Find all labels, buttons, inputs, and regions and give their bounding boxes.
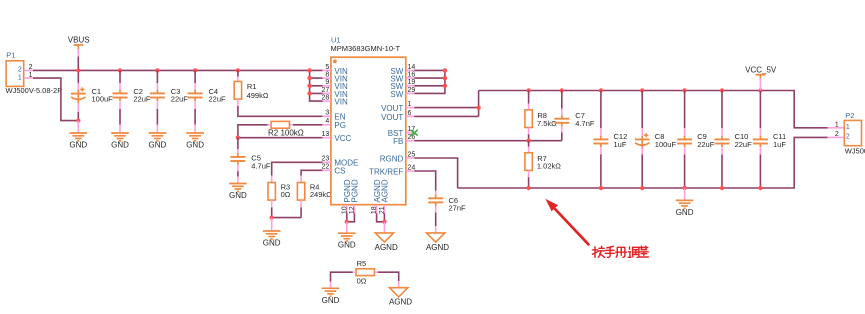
svg-text:22uF: 22uF [697, 140, 715, 149]
junction node ground rail at C9 [682, 186, 686, 190]
svg-text:FB: FB [393, 137, 403, 146]
pin R7 bottom [528, 170, 530, 177]
wire R7 bottom to ground rail [528, 177, 530, 188]
junction node SW bus [443, 76, 447, 80]
resistor R5 [356, 269, 374, 276]
wire R5 right to AGND [378, 272, 399, 281]
svg-text:VCC: VCC [334, 134, 351, 143]
svg-text:1uF: 1uF [773, 140, 786, 149]
pin C6 bottom [435, 206, 437, 213]
resistor R1 [234, 82, 241, 100]
resistor R7 label 1.02k [537, 154, 561, 171]
capacitor C12 [593, 136, 608, 147]
svg-text:AGND: AGND [375, 243, 398, 252]
wire C2 top lead [119, 70, 121, 83]
wire R7 top lead [528, 141, 530, 147]
pin C5 bottom [237, 165, 239, 172]
ground GND under C5 [229, 184, 247, 201]
wire RGND pin25 to output ground rail [414, 158, 457, 188]
svg-text:RGND: RGND [380, 154, 404, 163]
pin C5 top [237, 149, 239, 153]
pin R2 left [268, 124, 272, 126]
capacitor C6 label [449, 196, 467, 213]
svg-text:12: 12 [349, 206, 356, 214]
svg-text:GND: GND [69, 141, 87, 150]
resistor R3 [268, 183, 275, 201]
wire R5 right analog ground stub [398, 281, 400, 288]
U1 pin 27 VIN stub [322, 92, 331, 94]
wire C4 bottom lead [194, 109, 196, 125]
wire PGND pins 10/12 join [347, 213, 355, 222]
junction node ground rail at C11 [758, 186, 762, 190]
U1 pin 12 PGND stub [353, 205, 355, 214]
junction node VOUT rail at C9 [682, 88, 686, 92]
svg-text:VOUT: VOUT [381, 113, 403, 122]
wire output ground rail to P2 pin2 [458, 137, 828, 188]
annotation text 'adjust per manual' [592, 246, 648, 257]
junction node input rail at R1 [236, 68, 240, 72]
svg-text:22uF: 22uF [209, 94, 227, 103]
wire VOUT vertical riser [478, 91, 480, 117]
resistor R8 [525, 110, 532, 128]
ground AGND under C6 [426, 233, 449, 252]
junction node R3/R4 ground [270, 215, 274, 219]
wire C1 bottom to junction [77, 112, 79, 121]
svg-text:R1: R1 [247, 82, 257, 91]
U1 pin 21 AGND stub [383, 205, 385, 214]
wire R2 left to VCC node [238, 125, 268, 138]
pin C11 bottom [759, 147, 761, 155]
wire C8 top lead [641, 91, 643, 129]
wire C5 bottom lead [237, 171, 239, 176]
wire VOUT pin1 [414, 107, 478, 109]
ground GND under R3 [263, 231, 281, 248]
junction node VIN bus [307, 84, 311, 88]
wire C1 top lead [77, 70, 79, 83]
junction node VOUT rail at C12 [599, 88, 603, 92]
ground GND under C3 [149, 133, 167, 150]
capacitor C1 label [92, 87, 114, 104]
U1 pin 19 SW stub [406, 85, 415, 87]
connector P2 [844, 120, 861, 145]
U1 pin 13 VCC stub [322, 137, 331, 139]
svg-text:VBUS: VBUS [68, 36, 90, 45]
junction node VIN bus [307, 76, 311, 80]
pin VCC_5V stub [759, 79, 761, 91]
wire PG pin4 to R2 [293, 124, 323, 126]
capacitor C10 [715, 136, 730, 147]
wire C11 top lead [759, 91, 761, 129]
svg-text:22uF: 22uF [133, 94, 151, 103]
U1 pin 23 MODE stub [322, 161, 331, 163]
svg-text:499kΩ: 499kΩ [247, 91, 269, 100]
pin R1 bottom [237, 99, 239, 106]
pin C11 top [759, 128, 761, 136]
svg-text:25: 25 [408, 151, 416, 158]
svg-text:10: 10 [341, 206, 348, 214]
capacitor C2 [113, 90, 128, 101]
svg-text:22uF: 22uF [171, 94, 189, 103]
pin R4 bottom [300, 200, 302, 207]
pin R5 right [374, 271, 378, 273]
resistor R7 [525, 153, 532, 171]
wire R8 bottom to FB [528, 134, 530, 141]
pin C1 bottom [77, 103, 79, 112]
resistor R3 label 0 ohm [281, 182, 291, 199]
capacitor C2 label [133, 87, 151, 104]
junction node VOUT riser [476, 105, 480, 109]
capacitor C11 label [773, 132, 786, 149]
wire VCC pin13 to node [238, 137, 323, 139]
resistor R2 [271, 121, 289, 128]
pin C4 top [194, 83, 196, 90]
svg-text:U1: U1 [331, 36, 341, 45]
svg-text:13: 13 [322, 131, 330, 138]
op-amp U1 body MPM3683GMN-10-T [331, 57, 406, 205]
svg-text:PG: PG [334, 121, 346, 130]
svg-text:1: 1 [18, 74, 22, 81]
svg-text:CS: CS [334, 167, 345, 176]
wire C7 bottom to FB [561, 133, 563, 141]
svg-text:VIN: VIN [334, 98, 348, 107]
U1 pin 16 SW stub [406, 77, 415, 79]
pin C7 bottom [561, 126, 563, 133]
svg-text:249kΩ: 249kΩ [310, 190, 332, 199]
U1 pin 3 EN stub [322, 115, 331, 117]
capacitor C8 (polarized) [635, 133, 650, 149]
ground GND under output rail [676, 200, 694, 217]
svg-text:27: 27 [322, 87, 330, 94]
wire MODE pin23 to R3 [272, 162, 323, 175]
wire C9 top lead [684, 91, 686, 129]
ground GND under PGND pins [338, 233, 356, 250]
capacitor C11 [753, 136, 768, 147]
svg-text:GND: GND [111, 141, 129, 150]
svg-text:GND: GND [149, 141, 167, 150]
wire C12 top lead [600, 91, 602, 129]
U1 pin 17 BST stub [406, 132, 415, 134]
pin R7 top [528, 147, 530, 153]
wire C3 bottom lead [156, 109, 158, 125]
svg-text:22uF: 22uF [735, 140, 753, 149]
ground AGND under pins 18/21 [375, 233, 398, 252]
svg-text:VCC_5V: VCC_5V [745, 66, 777, 75]
svg-text:6: 6 [408, 110, 412, 117]
U1 pin 8 VIN stub [322, 77, 331, 79]
U1 pin 10 PGND stub [346, 205, 348, 214]
wire R1 bottom to EN pin 3 [238, 106, 323, 116]
junction node ground rail at C12 [599, 186, 603, 190]
wire C9 bottom lead [684, 155, 686, 189]
junction node VOUT rail at R8 [526, 88, 530, 92]
junction node input rail at C3 [155, 68, 159, 72]
capacitor C3 label [171, 87, 189, 104]
U1 pin 14 SW stub [406, 69, 415, 71]
svg-text:1.02kΩ: 1.02kΩ [537, 162, 561, 171]
wire C6 bottom lead [435, 213, 437, 227]
wire R5 left to GND [331, 272, 353, 281]
wire VOUT pin6 [414, 115, 478, 117]
wire SW bus [414, 70, 445, 93]
svg-text:MPM3683GMN-10-T: MPM3683GMN-10-T [331, 44, 401, 53]
svg-text:100uF: 100uF [655, 140, 677, 149]
pin C12 top [600, 128, 602, 136]
wire C8 bottom lead [641, 155, 643, 189]
wire C4 top lead [194, 70, 196, 83]
svg-text:1: 1 [846, 124, 850, 131]
svg-text:GND: GND [676, 208, 694, 217]
wire C5 to ground [237, 177, 239, 184]
svg-text:28: 28 [322, 95, 330, 102]
wire TRK/REF pin24 to C6 [414, 171, 435, 191]
capacitor C9 [677, 136, 692, 147]
U1 pin 29 SW stub [406, 92, 415, 94]
junction node VOUT rail at C10 [720, 88, 724, 92]
svg-text:19: 19 [408, 79, 416, 86]
pin C6 top [435, 191, 437, 199]
wire C10 bottom lead [721, 155, 723, 189]
capacitor C10 label [735, 132, 753, 149]
pin R3 bottom [271, 200, 273, 207]
pin C2 top [119, 83, 121, 90]
svg-text:4.7nF: 4.7nF [575, 119, 595, 128]
svg-text:P2: P2 [845, 111, 854, 120]
svg-text:GND: GND [263, 239, 281, 248]
pin R5 left [353, 271, 357, 273]
wire PGND junction to ground [346, 222, 348, 233]
wire C2 bottom lead [119, 109, 121, 125]
U1 pin 5 VIN stub [322, 69, 331, 71]
wire C2 to ground [119, 125, 121, 133]
wire output VOUT rail to P2 pin1 [479, 91, 828, 128]
svg-text:5: 5 [325, 64, 329, 71]
svg-text:14: 14 [408, 64, 416, 71]
svg-text:AGND: AGND [381, 179, 390, 202]
ground GND under C2 [111, 133, 129, 150]
svg-text:2: 2 [835, 131, 839, 138]
connector P1 [6, 61, 24, 87]
svg-text:7.5kΩ: 7.5kΩ [537, 119, 557, 128]
svg-text:4.7uF: 4.7uF [251, 162, 271, 171]
ground GND left of R5 [322, 288, 340, 305]
pin C3 bottom [156, 102, 158, 110]
svg-text:GND: GND [338, 241, 356, 250]
resistor R4 label 249k [310, 182, 332, 199]
junction node FB/R8/R7 [526, 139, 530, 143]
capacitor C4 label [209, 87, 227, 104]
junction node PGND [345, 220, 349, 224]
junction node SW bus [443, 68, 447, 72]
svg-text:SW: SW [390, 90, 403, 99]
U1 pin 28 VIN stub [322, 100, 331, 102]
pin C8 bottom [641, 147, 643, 155]
connector P1 pin 2 stub [24, 69, 33, 71]
pin VBUS stub [77, 49, 79, 56]
capacitor C6 [428, 195, 443, 206]
wire C7 top lead [561, 91, 563, 109]
resistor R4 [297, 183, 304, 201]
capacitor C9 label [697, 132, 715, 149]
svg-text:2: 2 [18, 67, 22, 74]
no-connect flag on BST pin 17 [411, 130, 418, 136]
svg-text:GND: GND [322, 296, 340, 305]
power symbol VBUS T-bar [74, 45, 84, 49]
svg-text:22: 22 [322, 164, 330, 171]
wire AGND junction to analog ground [383, 222, 385, 233]
wire C3 to ground [156, 125, 158, 133]
svg-text:0Ω: 0Ω [357, 276, 367, 285]
svg-text:GND: GND [229, 191, 247, 200]
svg-text:8: 8 [325, 72, 329, 79]
wire R1 top lead [237, 70, 239, 76]
svg-text:VOUT: VOUT [381, 104, 403, 113]
wire C11 bottom lead [759, 155, 761, 189]
junction node C1/P1 ground [76, 118, 80, 122]
pin C10 bottom [721, 147, 723, 155]
capacitor C3 [150, 90, 165, 101]
junction node ground rail at C8 [640, 186, 644, 190]
wire input rail VBUS [33, 69, 323, 71]
junction node ground rail at GND symbol [682, 186, 686, 190]
wire junction to ground [271, 218, 273, 231]
U1 pin 9 VIN stub [322, 85, 331, 87]
capacitor C7 [554, 115, 569, 126]
svg-text:AGND: AGND [426, 243, 449, 252]
junction node VIN bus [307, 68, 311, 72]
svg-text:21: 21 [379, 206, 386, 214]
junction node VOUT rail at C7 [560, 88, 564, 92]
svg-text:P1: P1 [6, 50, 15, 59]
pin C2 bottom [119, 102, 121, 110]
U1 pin 25 RGND stub [406, 157, 415, 159]
junction node input rail at C4 [193, 68, 197, 72]
svg-text:0Ω: 0Ω [281, 190, 291, 199]
pin C8 top [641, 128, 643, 136]
pin P2 pin2 stub [828, 136, 845, 138]
wire VIN bus [310, 70, 323, 101]
wire C6 to analog ground [435, 226, 437, 233]
svg-text:GND: GND [186, 141, 204, 150]
pin C9 top [684, 128, 686, 136]
U1 pin 1 VOUT stub [406, 107, 415, 109]
wire C4 to ground [194, 125, 196, 133]
junction node VOUT rail at C8 [640, 88, 644, 92]
junction node AGND [382, 220, 386, 224]
pin R8 top [528, 104, 530, 110]
capacitor C7 label [575, 111, 595, 128]
wire P1 pin1 to C1 ground node [33, 78, 78, 121]
ground AGND right of R5 [389, 288, 412, 307]
capacitor C5 label [251, 154, 271, 171]
junction node VIN bus [307, 91, 311, 95]
svg-text:1: 1 [835, 121, 839, 128]
junction node ground rail at C10 [720, 186, 724, 190]
svg-text:18: 18 [371, 206, 378, 214]
svg-text:R2 100kΩ: R2 100kΩ [268, 128, 304, 137]
U1 pin 4 PG stub [322, 124, 331, 126]
junction node VCC/R2/C5 [236, 136, 240, 140]
ground GND under C1 [69, 133, 87, 150]
svg-text:AGND: AGND [389, 298, 412, 307]
resistor R1 label 499k [247, 82, 269, 100]
power symbol VCC_5V T-bar [756, 75, 766, 79]
wire VBUS to input rail [77, 57, 79, 71]
svg-text:1uF: 1uF [614, 140, 627, 149]
pin R2 right [290, 124, 294, 126]
svg-text:3: 3 [325, 110, 329, 117]
svg-text:29: 29 [408, 87, 416, 94]
wire R3/R4 bottoms join [272, 208, 301, 218]
ground GND under C4 [186, 133, 204, 150]
U1 pin 22 CS stub [322, 169, 331, 171]
wire C12 bottom lead [600, 155, 602, 189]
U1 pin 26 FB stub [406, 140, 415, 142]
wire VCC node down to C5 [237, 138, 239, 150]
wire C3 top lead [156, 70, 158, 83]
svg-text:2: 2 [846, 134, 850, 141]
U1 pin 24 TRK/REF stub [406, 170, 415, 172]
pin C1 top [77, 83, 79, 90]
U1 pin 18 AGND stub [376, 205, 378, 214]
connector P1 pin 1 stub [24, 77, 33, 79]
svg-text:R5: R5 [357, 259, 367, 268]
wire CS pin22 to R4 [301, 170, 322, 175]
junction node ground rail at R7 [526, 186, 530, 190]
wire C10 top lead [721, 91, 723, 129]
svg-text:PGND: PGND [351, 179, 360, 202]
svg-text:100uF: 100uF [92, 95, 114, 104]
junction node SW bus [443, 84, 447, 88]
svg-text:WJ500V-5.08-2P: WJ500V-5.08-2P [6, 86, 63, 95]
U1 pin 6 VOUT stub [406, 115, 415, 117]
capacitor C1 (polarized) [71, 87, 86, 103]
svg-text:27nF: 27nF [449, 204, 467, 213]
capacitor C8 label [655, 132, 677, 149]
pin C12 bottom [600, 147, 602, 155]
annotation arrow [545, 199, 589, 245]
wire R8 top lead [528, 91, 530, 104]
wire junction to GND symbol [77, 121, 79, 133]
svg-text:1: 1 [408, 101, 412, 108]
svg-text:24: 24 [408, 164, 416, 171]
pin C7 top [561, 109, 563, 116]
pin R4 top [300, 176, 302, 183]
svg-text:WJ500V-5.08-2P: WJ500V-5.08-2P [845, 147, 865, 156]
wire AGND pins 18/21 join [377, 213, 385, 222]
svg-text:23: 23 [322, 156, 330, 163]
wire R5 left ground stub [330, 282, 332, 289]
resistor R8 label 7.5k [537, 111, 557, 128]
pin C4 bottom [194, 102, 196, 110]
junction node input rail at C1/VBUS [76, 68, 80, 72]
svg-text:TRK/REF: TRK/REF [369, 167, 403, 176]
wire FB pin26 to divider [414, 140, 562, 142]
junction node VOUT rail at C11 [758, 88, 762, 92]
capacitor C4 [188, 90, 203, 101]
pin P2 pin1 stub [828, 127, 845, 129]
pin R1 top [237, 77, 239, 82]
svg-text:16: 16 [408, 72, 416, 79]
capacitor C5 [230, 153, 245, 164]
pin C9 bottom [684, 147, 686, 155]
pin R3 top [271, 176, 273, 183]
capacitor C12 label [614, 132, 628, 149]
junction node input rail at C2 [118, 68, 122, 72]
svg-text:4: 4 [325, 118, 329, 125]
wire ground rail to GND symbol [684, 188, 686, 200]
svg-text:9: 9 [325, 79, 329, 86]
pin C10 top [721, 128, 723, 136]
